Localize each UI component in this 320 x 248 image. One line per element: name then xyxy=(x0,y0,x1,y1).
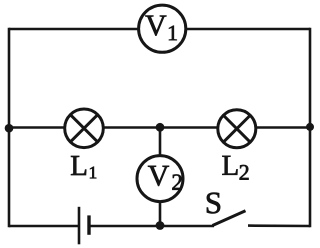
voltmeter V1: circle xyxy=(139,5,186,52)
lamp L1: cross stroke 1 xyxy=(70,115,97,142)
wire: right vertical xyxy=(309,28,312,228)
label L2: subscript 2 xyxy=(240,165,249,180)
wire: center vertical branch to V2 xyxy=(159,128,162,227)
battery cell: long plate xyxy=(78,207,81,245)
lamp L2: cross stroke 1 xyxy=(223,115,250,142)
lamp L1: circle xyxy=(65,109,104,148)
lamp L2: circle xyxy=(218,110,256,148)
voltmeter V2: subscript 2 xyxy=(172,174,181,189)
wire: left vertical xyxy=(8,28,11,228)
label L1: subscript 1 xyxy=(90,167,96,179)
voltmeter V1: letter V xyxy=(145,16,166,36)
voltmeter V1: subscript 1 xyxy=(169,26,177,41)
node: left junction xyxy=(5,124,14,133)
node: right junction xyxy=(306,123,314,131)
voltmeter V2: letter V xyxy=(148,166,169,186)
wire: middle horizontal lamp branch xyxy=(9,126,310,129)
switch S: blade xyxy=(213,211,246,226)
label L1: letter L xyxy=(71,156,86,175)
wire: bottom left segment to battery xyxy=(9,225,79,228)
voltmeter V2: circle xyxy=(137,156,183,202)
wire: bottom middle segment battery to switch xyxy=(89,225,214,228)
lamp L2: cross stroke 2 xyxy=(223,115,250,142)
node: center junction xyxy=(156,123,165,132)
battery cell: short plate xyxy=(87,215,90,234)
wire: bottom right segment from switch xyxy=(248,224,310,227)
node: bottom junction xyxy=(156,221,165,230)
label S for switch xyxy=(207,193,220,214)
lamp L1: cross stroke 2 xyxy=(70,115,97,142)
wire: top horizontal xyxy=(9,28,310,31)
label L2: letter L xyxy=(222,156,237,175)
